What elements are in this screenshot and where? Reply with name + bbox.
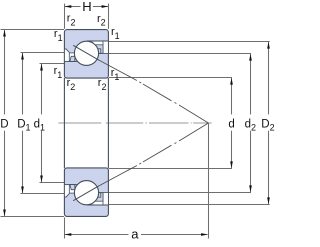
svg-text:d1: d1 [34, 119, 45, 133]
arrowhead d2 top [249, 54, 252, 61]
arrowhead d2 bottom [249, 185, 252, 192]
svg-text:r2: r2 [98, 77, 107, 92]
svg-text:r2: r2 [67, 77, 76, 92]
arrowhead D2 top [267, 42, 270, 49]
arrowhead a left [65, 233, 72, 236]
arrowhead D1 bottom [21, 187, 24, 194]
a dimension line [65, 234, 129, 236]
top bearing cross-section [64, 30, 108, 79]
svg-text:a: a [131, 227, 139, 242]
D extension lines [1, 29, 65, 31]
svg-text:H: H [82, 0, 91, 14]
d1 dimension line [41, 64, 43, 114]
d2 dimension line [250, 54, 252, 114]
arrowhead d1 bottom [40, 176, 43, 183]
svg-text:d: d [228, 119, 234, 131]
D1 dimension line [22, 53, 24, 114]
svg-text:D: D [0, 119, 8, 131]
arrowhead D2 bottom [267, 197, 270, 204]
D2 dimension line [268, 42, 270, 114]
H dimension line [65, 6, 81, 8]
d dimension line [231, 78, 233, 114]
arrowhead d1 top [40, 64, 43, 71]
svg-text:D2: D2 [261, 119, 274, 133]
svg-text:d2: d2 [245, 119, 256, 133]
svg-text:r1: r1 [54, 28, 63, 43]
D dimension line [4, 30, 6, 114]
d extension lines [109, 77, 232, 79]
arrowhead H left [65, 5, 72, 8]
D1 extension lines [21, 52, 65, 54]
D2 extension lines [109, 41, 270, 43]
svg-text:r2: r2 [67, 13, 76, 28]
d1 extension lines [40, 63, 65, 65]
bottom bearing cross-section (mirrored) [64, 168, 108, 217]
arrowhead H right [102, 5, 109, 8]
svg-text:r2: r2 [97, 13, 106, 28]
arrowhead D bottom [3, 210, 6, 217]
svg-text:r1: r1 [54, 65, 63, 80]
arrowhead d bottom [230, 161, 233, 168]
arrowhead D top [3, 30, 6, 37]
H extension lines [64, 4, 66, 29]
svg-text:r1: r1 [111, 67, 120, 82]
arrowhead D1 top [21, 53, 24, 60]
a extension lines [64, 217, 66, 238]
svg-text:r1: r1 [111, 26, 120, 41]
arrowhead a right [201, 233, 208, 236]
d2 extension lines [109, 53, 251, 55]
arrowhead d top [230, 78, 233, 85]
svg-text:D1: D1 [17, 119, 30, 133]
